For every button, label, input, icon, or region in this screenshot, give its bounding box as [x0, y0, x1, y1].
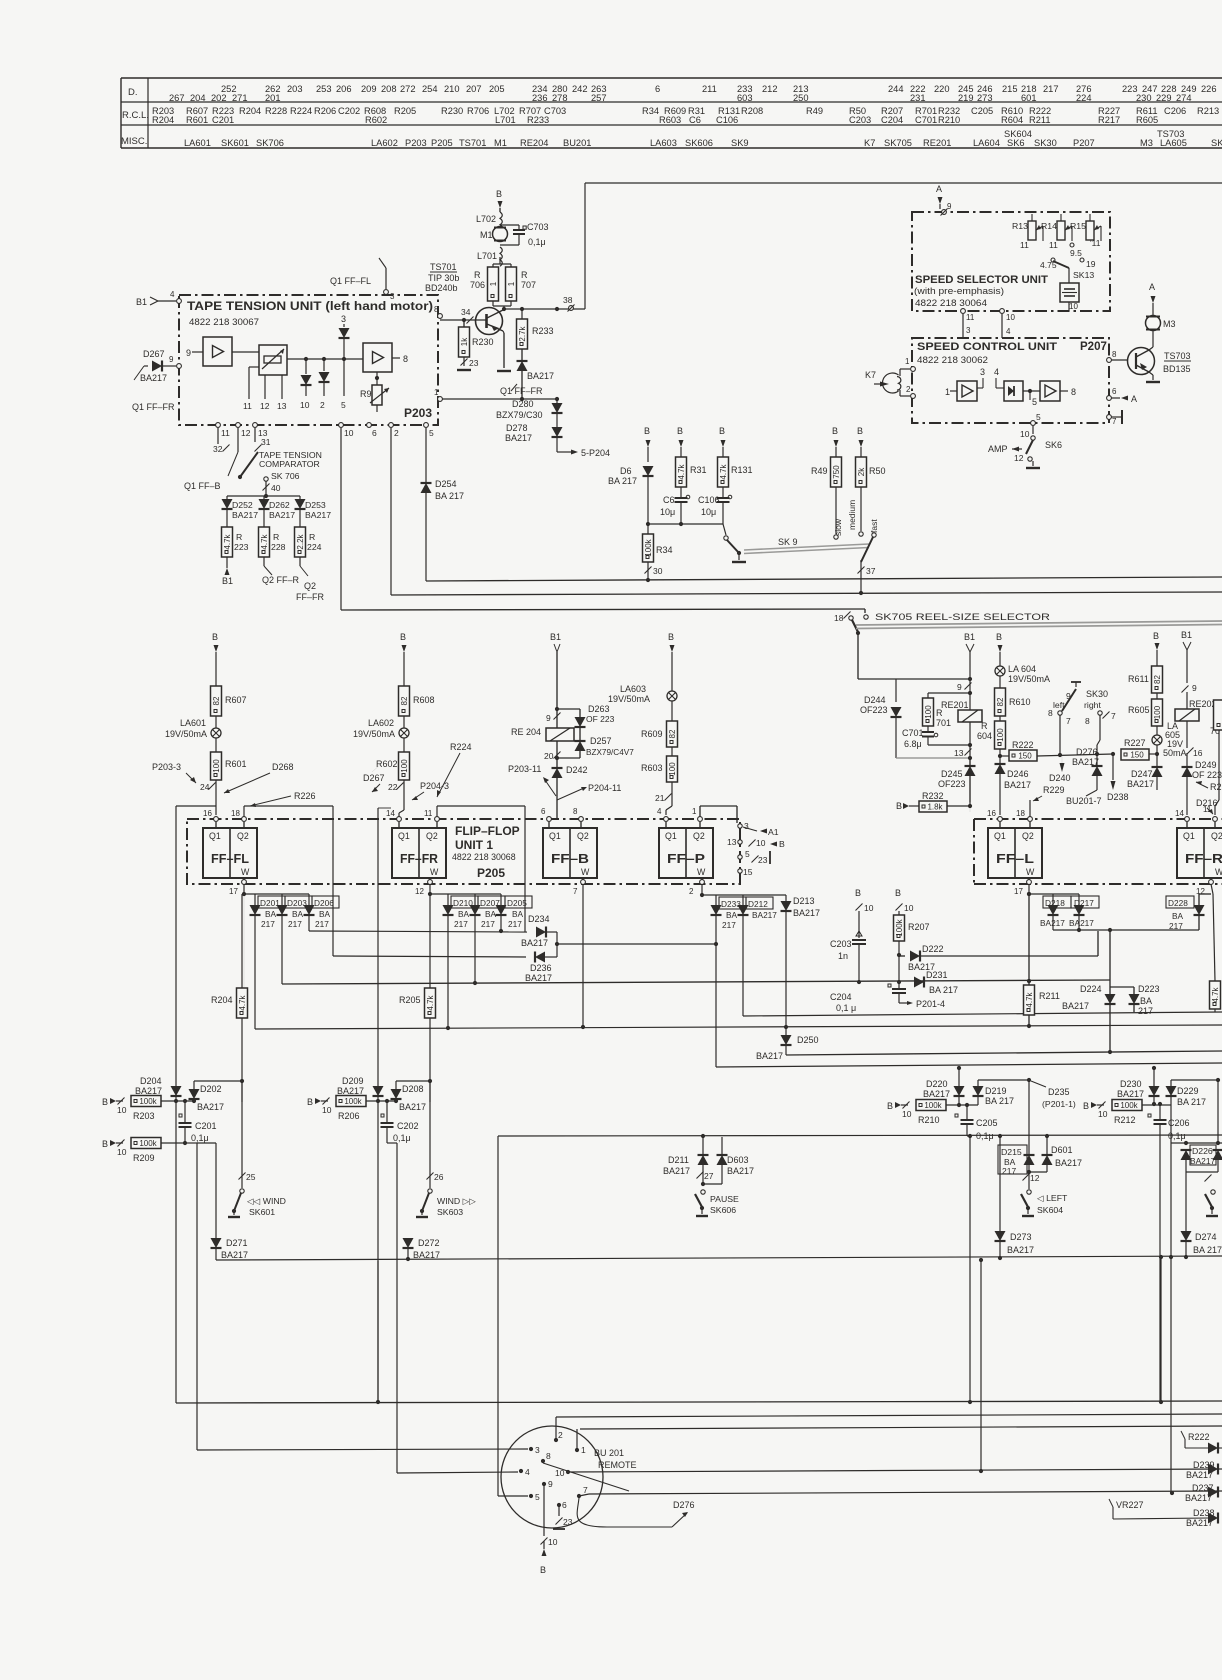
svg-text:C204: C204 — [830, 992, 852, 1002]
svg-text:L701: L701 — [495, 115, 516, 125]
svg-text:D271: D271 — [226, 1238, 248, 1248]
switch SK601 wind left — [228, 1189, 286, 1262]
diode D215 BA 217 — [998, 1145, 1035, 1176]
svg-text:30: 30 — [653, 566, 663, 576]
svg-text:5: 5 — [429, 428, 434, 438]
svg-text:C701: C701 — [915, 115, 937, 125]
svg-text:BD240b: BD240b — [425, 283, 458, 293]
diode D6 BA217 — [608, 466, 654, 524]
svg-text:Q2: Q2 — [1211, 831, 1222, 841]
bus 1262 wire — [216, 1255, 1222, 1261]
ff-fr pin stubs — [399, 822, 437, 882]
connector K7 — [865, 369, 910, 396]
svg-text:A: A — [1131, 394, 1137, 404]
ff-b pins 6 8 — [541, 807, 583, 821]
pin 3 and Q1 FF-FL label — [330, 258, 395, 301]
svg-text:9: 9 — [546, 713, 551, 723]
svg-text:D212: D212 — [748, 899, 768, 909]
svg-text:278: 278 — [552, 93, 568, 103]
wire pin18 R226 riser — [244, 806, 333, 956]
svg-text:228: 228 — [271, 542, 286, 552]
svg-text:BA 217: BA 217 — [985, 1096, 1014, 1106]
top rail wire to right edge — [585, 182, 1222, 184]
ff-p pin 2 — [689, 880, 704, 898]
lamp LA604 — [995, 664, 1050, 688]
wire pin11 riser to D234 — [437, 806, 525, 932]
svg-text:R228: R228 — [265, 106, 287, 116]
capacitor C703 — [500, 222, 549, 247]
wire 1137 junction dots — [701, 1134, 1049, 1138]
svg-text:100: 100 — [996, 728, 1005, 742]
svg-text:D278: D278 — [506, 423, 528, 433]
svg-text:SK606: SK606 — [710, 1205, 736, 1215]
svg-text:fast: fast — [869, 519, 879, 533]
svg-text:R210: R210 — [938, 115, 960, 125]
svg-text:R.C.L.: R.C.L. — [122, 110, 149, 121]
terminal A above speed selector — [936, 184, 943, 209]
switch SK9 left contact and ground — [724, 536, 798, 562]
svg-text:P207: P207 — [1080, 341, 1107, 353]
svg-text:5: 5 — [1032, 397, 1037, 407]
svg-text:BA217: BA217 — [1127, 779, 1154, 789]
svg-text:271: 271 — [232, 93, 248, 103]
TS701 emitter ground — [497, 333, 511, 371]
transistor TS701 — [476, 308, 505, 335]
svg-text:1.8k: 1.8k — [927, 803, 943, 812]
terminal B column FF-FL — [212, 632, 219, 686]
terminal B (motor supply) — [496, 189, 503, 212]
long rectangle wire from 498 — [498, 1135, 1222, 1496]
svg-text:24: 24 — [200, 782, 210, 792]
svg-text:SK601: SK601 — [221, 138, 249, 148]
svg-text:R50: R50 — [869, 466, 886, 476]
BU201 pin 7 — [577, 1485, 1222, 1498]
ff-r pins 14 11 — [1175, 805, 1217, 821]
svg-text:4: 4 — [170, 290, 175, 299]
wire R211 column down to D215 — [1028, 1080, 1030, 1155]
svg-text:D240: D240 — [1049, 773, 1071, 783]
svg-text:Q2: Q2 — [577, 831, 589, 841]
resistor R31 — [676, 457, 707, 487]
svg-text:R34: R34 — [642, 106, 659, 116]
diode D262 BA217 — [259, 496, 296, 520]
svg-text:19V/50mA: 19V/50mA — [165, 729, 207, 739]
wire D234 junction to D233 — [557, 943, 716, 945]
svg-text:37: 37 — [866, 566, 876, 576]
wire pin1 to D280 column — [440, 397, 559, 401]
svg-text:19V/50mA: 19V/50mA — [353, 729, 395, 739]
svg-text:5: 5 — [535, 1492, 540, 1502]
wire pin18 up with R229 label — [1030, 785, 1065, 817]
svg-text:82: 82 — [1153, 675, 1162, 684]
svg-text:1: 1 — [905, 357, 910, 366]
resistor R607 — [211, 686, 247, 716]
bus 984 wire — [282, 979, 1110, 985]
diode D245 OF223 — [938, 758, 976, 802]
ff-l pin stubs — [1000, 822, 1030, 882]
svg-text:4: 4 — [1006, 327, 1011, 336]
svg-text:4.7k: 4.7k — [260, 533, 269, 549]
svg-text:B: B — [677, 426, 683, 436]
svg-text:707: 707 — [521, 280, 536, 290]
resistor R222 — [1000, 740, 1037, 761]
svg-text:82: 82 — [400, 696, 409, 705]
resistor R206 feed — [307, 1096, 398, 1122]
svg-text:R206: R206 — [338, 1111, 360, 1121]
wire B1 column to R232 junction — [969, 802, 971, 812]
svg-text:B: B — [102, 1097, 108, 1107]
svg-text:R211: R211 — [1029, 115, 1051, 125]
ff-b pin 7 — [573, 880, 585, 1027]
svg-text:C204: C204 — [881, 115, 903, 125]
BU201 pin 5 — [529, 1492, 540, 1502]
terminal B1 below R223 — [222, 557, 233, 586]
D276 curve from pin 7 — [577, 1498, 694, 1527]
label P203-11 with arrow — [508, 764, 556, 796]
svg-text:W: W — [697, 867, 706, 877]
resistor R224 — [295, 509, 322, 557]
svg-text:R212: R212 — [1114, 1115, 1136, 1125]
wire pin 5 down with diode D254 — [421, 428, 465, 581]
svg-text:BA217: BA217 — [1185, 1493, 1212, 1503]
svg-text:BA: BA — [512, 909, 524, 919]
ff-p box — [659, 828, 713, 878]
ff-l box — [988, 828, 1042, 878]
svg-text:SK13: SK13 — [1073, 270, 1094, 280]
svg-text:100: 100 — [400, 759, 409, 773]
svg-text:Q1: Q1 — [209, 831, 221, 841]
svg-text:19: 19 — [1086, 259, 1096, 269]
node 16 — [1187, 748, 1203, 759]
svg-text:R603: R603 — [659, 115, 681, 125]
svg-text:P205: P205 — [431, 138, 453, 148]
svg-text:14: 14 — [1175, 809, 1184, 818]
svg-text:244: 244 — [888, 84, 904, 94]
svg-text:R233: R233 — [527, 115, 549, 125]
svg-text:R230: R230 — [441, 106, 463, 116]
svg-text:R49: R49 — [811, 466, 828, 476]
diode D237 BA217 — [1185, 1483, 1222, 1503]
svg-text:SK30: SK30 — [1086, 689, 1108, 699]
svg-text:206: 206 — [336, 84, 352, 94]
svg-text:BA 217: BA 217 — [929, 985, 958, 995]
svg-text:2.7k: 2.7k — [518, 325, 527, 341]
svg-text:220: 220 — [934, 84, 950, 94]
label P203 — [404, 406, 432, 420]
svg-text:D233: D233 — [721, 899, 741, 909]
svg-text:P204-11: P204-11 — [588, 783, 621, 793]
node 40 — [263, 481, 281, 493]
svg-text:BA 217: BA 217 — [1193, 1245, 1222, 1255]
svg-text:BA217: BA217 — [399, 1102, 426, 1112]
svg-text:8: 8 — [403, 354, 408, 364]
svg-text:D249: D249 — [1195, 760, 1217, 770]
svg-text:D263: D263 — [588, 704, 610, 714]
svg-text:D250: D250 — [797, 1035, 819, 1045]
svg-text:B1: B1 — [1181, 630, 1192, 640]
svg-text:M1: M1 — [480, 230, 493, 240]
svg-text:BA: BA — [292, 909, 304, 919]
svg-text:0,1μ: 0,1μ — [191, 1133, 209, 1143]
svg-text:207: 207 — [466, 84, 482, 94]
diode D218 BA217 — [1029, 894, 1079, 930]
resistor R601 — [211, 752, 247, 780]
diode D233 BA — [702, 895, 786, 1067]
capacitor C106 — [698, 487, 732, 524]
svg-text:D206: D206 — [314, 898, 334, 908]
svg-text:BA: BA — [458, 909, 470, 919]
svg-text:W: W — [581, 867, 590, 877]
diode D257 BZX79/C4V7 — [575, 727, 635, 758]
svg-text:242: 242 — [572, 84, 588, 94]
svg-text:224: 224 — [1076, 93, 1092, 103]
svg-text:204: 204 — [190, 93, 206, 103]
label R224 arrow to pin 11 — [437, 742, 472, 797]
diode D230 BA217 — [1117, 1066, 1160, 1104]
svg-text:BA217: BA217 — [1004, 780, 1031, 790]
svg-text:50mA: 50mA — [1163, 748, 1187, 758]
svg-text:2.2k: 2.2k — [296, 533, 305, 549]
node 9 FF-B — [546, 707, 561, 723]
transistor TS703 — [1128, 348, 1192, 375]
diode D219 BA 217 — [973, 1078, 1032, 1106]
transistor TS701 labels — [425, 262, 459, 293]
svg-text:TAPE TENSION UNIT (left hand m: TAPE TENSION UNIT (left hand motor) — [187, 299, 433, 313]
wire R222 output — [1037, 752, 1115, 757]
resistor R701 — [923, 691, 973, 728]
svg-text:B: B — [896, 801, 902, 811]
svg-text:11: 11 — [966, 313, 975, 322]
svg-text:R208: R208 — [741, 106, 763, 116]
diode D207 BA217 — [470, 894, 506, 983]
diode D203 BA217 — [277, 894, 313, 984]
svg-text:6: 6 — [541, 807, 546, 816]
diode D273 BA217 — [995, 1136, 1035, 1258]
internal diode at node 10 — [300, 359, 312, 410]
svg-text:210: 210 — [444, 84, 460, 94]
svg-text:BA: BA — [1172, 911, 1184, 921]
label D216 with arrow — [1196, 798, 1218, 814]
svg-text:B: B — [307, 1097, 313, 1107]
svg-text:BA217: BA217 — [663, 1166, 690, 1176]
pin 5 stub in P207 — [1030, 391, 1037, 407]
vertical 1172 wire — [1169, 1143, 1173, 1493]
svg-text:D224: D224 — [1080, 984, 1102, 994]
svg-text:B: B — [400, 632, 406, 642]
svg-text:224: 224 — [307, 542, 322, 552]
bus 1056 wire — [786, 1050, 1222, 1055]
svg-text:R224: R224 — [450, 742, 472, 752]
svg-text:4.7k: 4.7k — [223, 533, 232, 549]
ff-p contact ladder — [700, 806, 785, 877]
svg-text:10: 10 — [1006, 313, 1015, 322]
svg-text:D223: D223 — [1138, 984, 1160, 994]
ff-fr pin 12 — [415, 880, 432, 897]
label P204-3 with arrow — [412, 781, 449, 800]
svg-text:11: 11 — [221, 428, 230, 438]
svg-text:15: 15 — [743, 867, 753, 877]
svg-text:254: 254 — [422, 84, 438, 94]
svg-text:D267: D267 — [143, 349, 165, 359]
svg-text:R204: R204 — [239, 106, 261, 116]
svg-text:10: 10 — [756, 838, 766, 848]
diode D247 BA217 — [1127, 754, 1163, 790]
svg-text:100k: 100k — [924, 1101, 942, 1110]
diode D244 OF223 — [860, 695, 902, 758]
amplifier stage 1 in P203 — [186, 337, 232, 366]
svg-text:9: 9 — [548, 1479, 553, 1489]
svg-text:Q1: Q1 — [665, 831, 677, 841]
wire D212 to bus 1014 — [743, 1012, 1222, 1016]
svg-text:10: 10 — [117, 1147, 127, 1157]
resistor R211 — [1024, 894, 1060, 1026]
svg-text:P203-3: P203-3 — [152, 762, 181, 772]
svg-text:BA217: BA217 — [727, 1166, 754, 1176]
label Q2 FF-FR below R224 — [296, 557, 324, 602]
ff-fl box — [203, 828, 257, 878]
label Q1 FF-FR leader — [500, 384, 543, 396]
terminal B above C203 — [855, 888, 874, 938]
svg-text:7: 7 — [583, 1485, 588, 1495]
svg-text:0,1 μ: 0,1 μ — [836, 1003, 856, 1013]
svg-text:C6: C6 — [663, 495, 675, 505]
svg-text:BA217: BA217 — [337, 1086, 364, 1096]
TS703 emitter ground — [1146, 372, 1160, 382]
svg-text:FF–FL: FF–FL — [211, 851, 249, 866]
svg-text:MISC.: MISC. — [121, 136, 147, 147]
svg-text:P203: P203 — [405, 138, 427, 148]
svg-text:4.7k: 4.7k — [426, 994, 435, 1010]
svg-text:B1: B1 — [136, 297, 147, 307]
svg-text:2: 2 — [394, 428, 399, 438]
svg-text:LA602: LA602 — [368, 718, 394, 728]
svg-text:Q1: Q1 — [1183, 831, 1195, 841]
diode BA217 below R233 — [517, 349, 555, 399]
resistor R602 — [376, 752, 410, 780]
svg-text:BA217: BA217 — [1069, 918, 1094, 928]
svg-text:10: 10 — [864, 903, 874, 913]
terminal B1 column RE202 — [1181, 630, 1192, 683]
diode D280 BZX79/C30 — [496, 399, 563, 420]
svg-text:16: 16 — [987, 809, 996, 818]
svg-text:D208: D208 — [402, 1084, 424, 1094]
label R226 with arrow — [250, 791, 316, 807]
svg-text:D254: D254 — [435, 479, 457, 489]
svg-text:D211: D211 — [668, 1155, 689, 1165]
svg-text:D230: D230 — [1120, 1079, 1142, 1089]
svg-text:5: 5 — [745, 849, 750, 859]
svg-text:32: 32 — [213, 444, 223, 454]
svg-text:5-P204: 5-P204 — [581, 448, 610, 458]
potentiometer R14 — [1041, 214, 1072, 250]
lamp LA605 — [1152, 721, 1187, 767]
svg-text:C205: C205 — [976, 1118, 998, 1128]
reel size selector grey bus — [856, 621, 1222, 629]
wire R604 to D246 — [998, 749, 1002, 764]
svg-text:4822 218 30062: 4822 218 30062 — [917, 355, 988, 365]
svg-text:1n: 1n — [838, 951, 848, 961]
junction node30 on bus 1 — [646, 578, 650, 582]
svg-text:B: B — [1153, 631, 1159, 641]
lamp LA602 — [353, 716, 409, 752]
wire pin 2 to bus 2 — [390, 428, 392, 595]
svg-text:D238: D238 — [1107, 792, 1129, 802]
pin 7 stub — [1107, 410, 1122, 426]
svg-text:B: B — [887, 1101, 893, 1111]
svg-text:AMP: AMP — [988, 444, 1008, 454]
svg-text:R204: R204 — [152, 115, 174, 125]
svg-text:16: 16 — [203, 809, 212, 818]
capacitor C203 — [830, 931, 866, 982]
svg-text:Q1: Q1 — [994, 831, 1006, 841]
relay RE202 — [1175, 692, 1217, 748]
svg-text:D244: D244 — [864, 695, 886, 705]
svg-text:18: 18 — [231, 809, 240, 818]
svg-text:5: 5 — [341, 400, 346, 410]
svg-text:D220: D220 — [926, 1079, 948, 1089]
label R222 bottom with check — [1181, 1431, 1222, 1454]
svg-text:BA217: BA217 — [752, 910, 777, 920]
svg-text:D201: D201 — [260, 898, 280, 908]
svg-text:D246: D246 — [1007, 769, 1029, 779]
riser 981 from bus 1262 — [979, 1258, 983, 1471]
svg-text:R226: R226 — [294, 791, 316, 801]
svg-text:12: 12 — [241, 428, 251, 438]
svg-text:BD135: BD135 — [1163, 364, 1191, 374]
SK9 slider bar — [744, 544, 869, 554]
svg-text:R15: R15 — [1070, 221, 1086, 231]
svg-text:W: W — [1026, 867, 1035, 877]
svg-text:C703: C703 — [527, 222, 549, 232]
wire joining C6 C106 to SK9 — [648, 522, 726, 535]
svg-text:SK6: SK6 — [1007, 138, 1025, 148]
diode D278 BA217 — [505, 413, 563, 443]
svg-text:C6: C6 — [689, 115, 701, 125]
amplifier stage 1 in P207 — [945, 381, 977, 401]
medium contact — [847, 487, 863, 536]
svg-text:SK606: SK606 — [685, 138, 713, 148]
svg-text:SK604: SK604 — [1037, 1205, 1063, 1215]
svg-text:B: B — [1083, 1101, 1089, 1111]
svg-text:BA 217: BA 217 — [1177, 1097, 1206, 1107]
svg-text:D257: D257 — [590, 736, 612, 746]
svg-text:BA217: BA217 — [923, 1089, 950, 1099]
svg-text:P207: P207 — [1073, 138, 1095, 148]
svg-text:RE204: RE204 — [520, 138, 548, 148]
resistor R212 feed — [1083, 1100, 1171, 1126]
svg-text:4: 4 — [525, 1467, 530, 1477]
diode D238 arrow — [1107, 754, 1129, 802]
pin 13 wire down — [254, 428, 256, 442]
diode D272 BA217 — [403, 1196, 441, 1260]
capacitor C206 — [1148, 1104, 1190, 1403]
svg-text:100k: 100k — [1120, 1101, 1138, 1110]
svg-text:TIP 30b: TIP 30b — [428, 273, 459, 283]
svg-text:R605: R605 — [1136, 115, 1158, 125]
node 12 — [1023, 1172, 1040, 1189]
svg-text:10: 10 — [1069, 302, 1078, 311]
resistor R230 — [459, 318, 494, 357]
svg-text:10: 10 — [555, 1468, 565, 1478]
svg-text:229: 229 — [1156, 93, 1172, 103]
svg-text:C202: C202 — [338, 106, 360, 116]
svg-text:C203: C203 — [830, 939, 852, 949]
svg-text:18: 18 — [1016, 809, 1025, 818]
ff-r box — [1177, 828, 1222, 878]
svg-text:9.5: 9.5 — [1070, 248, 1082, 258]
pin 12 wire down — [237, 428, 239, 452]
BU201 pin 6 — [553, 1500, 573, 1529]
